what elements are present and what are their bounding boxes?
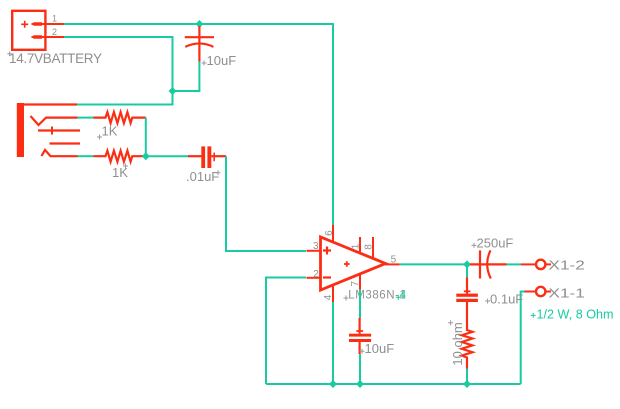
svg-text:3: 3 — [313, 241, 319, 252]
battery B1 box — [12, 11, 45, 50]
wire junction to C5 — [466, 264, 468, 278]
svg-text:250uF: 250uF — [477, 236, 514, 251]
svg-text:7: 7 — [350, 281, 361, 287]
op-amp pin 4 — [332, 286, 334, 303]
op-amp center plus mark — [344, 261, 350, 267]
capacitor C5 0.1uF — [456, 278, 478, 330]
op-amp pin 1 — [359, 237, 361, 254]
svg-text:10uF: 10uF — [207, 53, 237, 68]
svg-text:5: 5 — [391, 255, 397, 266]
op-amp pin 5 — [386, 263, 400, 265]
svg-text:4: 4 — [400, 289, 407, 301]
wire pin7 to C4 — [359, 290, 361, 319]
battery pin 2 — [31, 35, 65, 38]
resistor R1 1K — [94, 112, 146, 123]
label R3 10 ohm — [448, 320, 465, 365]
svg-text:LM386N-1: LM386N-1 — [348, 289, 406, 301]
capacitor C2 .01uF — [188, 146, 226, 168]
resistor R3 10 ohm — [462, 329, 473, 369]
svg-text:2: 2 — [313, 269, 319, 280]
svg-text:1: 1 — [351, 243, 362, 249]
svg-text:X1-1: X1-1 — [549, 286, 585, 301]
connector X1-2 — [521, 260, 551, 269]
svg-text:.01uF: .01uF — [186, 169, 219, 184]
wire C2 to opamp pin3 — [226, 156, 306, 251]
battery pin 1 — [31, 22, 65, 25]
junction pin4 bus — [329, 380, 337, 388]
op-amp pin 2 — [307, 277, 321, 279]
jack J1 plug bar — [17, 103, 24, 157]
wire pin2 feedback loop to ground bus — [266, 278, 306, 385]
op-amp pin 7 — [359, 275, 361, 290]
svg-text:X1-2: X1-2 — [549, 259, 585, 274]
wire ring to R2 — [78, 155, 94, 157]
op-amp pin 3 — [307, 250, 321, 252]
label C4 10uF — [360, 341, 395, 356]
label gate 4 teal — [396, 289, 407, 301]
jack tip contact — [31, 116, 78, 125]
wire tip to R1 — [78, 117, 94, 119]
wire R1 right to junction to C2 — [146, 118, 189, 157]
svg-text:1: 1 — [52, 14, 57, 24]
jack sleeve contact — [24, 103, 77, 105]
op-amp pin 6 — [332, 225, 334, 243]
svg-text:2: 2 — [52, 27, 57, 37]
label U1 LM386N-1 — [344, 289, 407, 301]
battery label 14.7VBATTERY — [7, 51, 102, 66]
wire pin4 to bus — [332, 302, 334, 384]
resistor R2 1K — [94, 151, 146, 162]
wire battery pin1 to opamp pin6 — [64, 24, 333, 227]
junction C4 bus — [356, 380, 364, 388]
svg-text:4: 4 — [323, 294, 334, 300]
op-amp pin 8 — [372, 237, 374, 259]
label R1 1K — [97, 124, 118, 140]
svg-text:6: 6 — [324, 230, 335, 236]
op-amp U1 triangle — [321, 237, 386, 290]
svg-text:10 ohm: 10 ohm — [450, 322, 465, 365]
junction R3 bus — [463, 380, 471, 388]
wire junction to C1 bottom — [173, 61, 200, 91]
svg-text:1/2 W, 8 Ohm: 1/2 W, 8 Ohm — [537, 307, 614, 321]
junction output node — [463, 260, 471, 268]
jack short contact — [50, 142, 81, 144]
wire C4 to bus — [359, 354, 361, 384]
ground bus wire — [266, 383, 521, 385]
label R2 1K — [112, 164, 128, 181]
svg-text:1K: 1K — [102, 124, 118, 139]
connector X1-1 — [525, 287, 552, 296]
capacitor C4 10uF polarized — [349, 318, 371, 354]
svg-text:14.7VBATTERY: 14.7VBATTERY — [9, 51, 102, 66]
wire battery pin2 to jack sleeve — [64, 37, 173, 105]
junction C1 top — [195, 20, 203, 28]
label C1 value 10uF — [202, 53, 237, 68]
label 1/2 W, 8 Ohm teal — [531, 307, 614, 321]
jack ring contact — [42, 150, 79, 156]
op-amp minus input mark — [323, 276, 331, 278]
label C2 .01uF — [186, 169, 221, 184]
wire C3 to X1-2 — [507, 263, 522, 265]
label C5 0.1uF — [485, 292, 523, 307]
svg-text:0.1uF: 0.1uF — [490, 292, 523, 307]
wire R3 to bus — [466, 369, 468, 385]
junction battery pin2 net — [169, 87, 177, 95]
wire pin5 to C3 — [400, 263, 470, 265]
capacitor C3 250uF polarized — [470, 250, 507, 278]
label C3 250uF — [472, 236, 514, 251]
svg-text:8: 8 — [364, 244, 375, 250]
op-amp plus input mark — [323, 247, 331, 255]
svg-text:10uF: 10uF — [365, 341, 395, 356]
wire X1-1 to bus — [521, 292, 525, 385]
jack middle contact with tick — [38, 127, 80, 135]
junction R1 R2 C2 — [142, 152, 150, 160]
capacitor C1 10uF polarized — [185, 26, 214, 62]
